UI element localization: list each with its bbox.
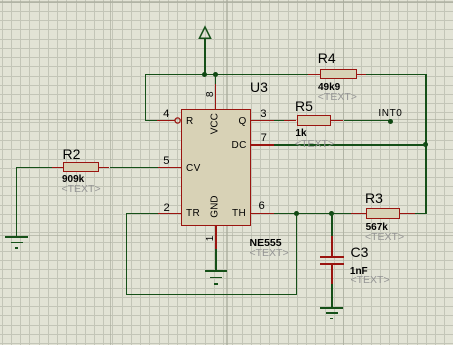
resistor R2 right lead [99, 167, 109, 169]
junction dot at power arrow [202, 72, 207, 77]
label INT0 [378, 109, 402, 119]
wire C3 top green [331, 213, 333, 237]
resistor R3 [366, 208, 400, 219]
IC U3 NE555 timer body [181, 109, 251, 226]
value 567k [366, 223, 388, 233]
value 909k [62, 175, 84, 185]
pin 5 CV stub red [158, 167, 181, 169]
label R5 [295, 99, 313, 113]
C3 TEXT placeholder [351, 275, 390, 286]
pin 2 TR stub red [158, 213, 181, 215]
pin number 6 [259, 201, 265, 212]
wire TR loop vertical right [296, 213, 298, 296]
svg-text:1: 1 [205, 235, 216, 241]
pin name Q [239, 117, 247, 127]
pin 6 TH stub red [250, 213, 274, 215]
wire R3 right to vertical [415, 213, 426, 215]
wire R2 left [16, 167, 52, 169]
wire power arrow stem [204, 38, 206, 75]
ground symbol left [5, 236, 29, 238]
wire R2 right to CV [110, 167, 158, 169]
label R4 [318, 51, 336, 65]
ground symbol below C3 [320, 307, 343, 309]
junction dot at VCC stub [213, 72, 218, 77]
wire left ground drop [16, 167, 18, 237]
wire C3 bottom green [331, 284, 333, 308]
resistor R4 right lead [357, 74, 366, 76]
pin 4 R stub red [157, 120, 174, 122]
pin 1 GND stub red [215, 225, 217, 249]
wire GND drop green [215, 249, 217, 272]
wire top horizontal left segment [145, 74, 308, 76]
pin number 2 [164, 203, 170, 214]
wire TR loop vertical left [126, 213, 128, 296]
resistor R2 [63, 162, 99, 173]
resistor R5 [297, 115, 332, 126]
capacitor C3 bottom plate [320, 263, 345, 265]
pin number 5 [163, 156, 169, 167]
R3 TEXT placeholder [365, 232, 404, 243]
pin name DC [232, 141, 247, 151]
pin 8 VCC stub red [215, 84, 217, 110]
R4 TEXT placeholder [318, 92, 357, 103]
resistor R5 left lead [284, 120, 297, 122]
chip label U3 [250, 80, 268, 94]
ground symbol below chip [205, 270, 227, 272]
pin number 4 [163, 109, 169, 120]
label C3 [351, 245, 369, 259]
wire TR from loop corner [126, 213, 158, 215]
wire top horizontal right segment [366, 74, 426, 76]
capacitor C3 top lead red [331, 236, 333, 256]
power symbol VCC arrow [196, 22, 214, 40]
R5 TEXT placeholder [295, 139, 334, 150]
value 1k [295, 129, 306, 139]
value 1nF [350, 267, 368, 277]
R2 TEXT placeholder [62, 184, 101, 195]
resistor R4 [320, 69, 357, 80]
pin name TR [186, 209, 200, 219]
wire right vertical [425, 74, 427, 215]
wire left drop to R pin [145, 74, 147, 122]
chip TEXT placeholder [250, 248, 289, 259]
junction dot DC / right vertical [423, 142, 428, 147]
pin name R [186, 117, 194, 127]
terminal dot INT0 [388, 119, 393, 124]
resistor R3 right lead [400, 213, 415, 215]
wire VCC drop green [215, 74, 217, 85]
wire TH to R3 [274, 213, 351, 215]
pin number 7 [261, 133, 267, 144]
capacitor C3 top plate [320, 256, 345, 258]
capacitor C3 bottom lead red [331, 265, 333, 285]
resistor R5 right lead [331, 120, 343, 122]
junction dot TR loop / TH wire [294, 211, 299, 216]
pin name TH [232, 209, 246, 219]
wire TR loop bottom horizontal [126, 294, 298, 296]
wire DC to right vertical [274, 144, 426, 146]
pin 3 Q stub red [250, 120, 274, 122]
pin 7 DC stub red [250, 144, 274, 146]
pin name CV [186, 164, 201, 174]
wire Q to R5 [274, 120, 284, 122]
resistor R3 left lead [351, 213, 367, 215]
resistor R4 left lead [308, 74, 320, 76]
value 49k9 [318, 83, 340, 93]
wire to R pin horizontal [145, 120, 157, 122]
pin 4 inversion bubble [174, 117, 182, 125]
pin number 3 [260, 109, 266, 120]
resistor R2 left lead [52, 167, 63, 169]
label R3 [365, 191, 383, 205]
wire R5 to INT0 [344, 120, 391, 122]
junction dot C3 / TH wire [329, 211, 334, 216]
chip type label NE555 [250, 238, 282, 249]
label R2 [63, 147, 81, 161]
